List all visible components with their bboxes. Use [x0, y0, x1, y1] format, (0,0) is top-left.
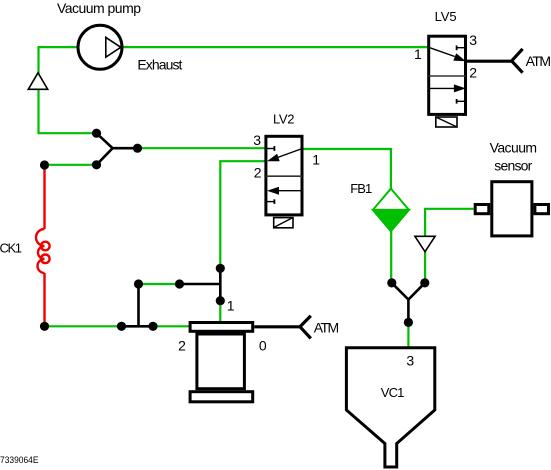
svg-text:FB1: FB1: [350, 181, 372, 196]
svg-text:1: 1: [312, 152, 320, 168]
svg-text:CK1: CK1: [0, 241, 22, 256]
svg-text:1: 1: [414, 46, 422, 62]
svg-text:LV5: LV5: [435, 9, 457, 24]
svg-text:sensor: sensor: [494, 158, 532, 174]
svg-text:Exhaust: Exhaust: [137, 56, 182, 72]
svg-text:3: 3: [469, 32, 477, 48]
svg-text:3: 3: [253, 132, 261, 148]
svg-text:Vacuum: Vacuum: [490, 140, 537, 156]
svg-text:2: 2: [178, 337, 186, 353]
svg-text:Vacuum pump: Vacuum pump: [57, 0, 141, 16]
svg-text:3: 3: [406, 352, 414, 368]
svg-text:1: 1: [227, 297, 235, 313]
svg-text:2: 2: [469, 65, 477, 81]
svg-text:LV2: LV2: [273, 112, 295, 127]
svg-text:2: 2: [254, 165, 262, 181]
svg-text:0: 0: [259, 337, 267, 353]
svg-text:ATM: ATM: [314, 319, 340, 335]
svg-text:ATM: ATM: [526, 53, 551, 69]
svg-text:VC1: VC1: [381, 385, 405, 400]
svg-text:7339064E: 7339064E: [0, 455, 39, 465]
